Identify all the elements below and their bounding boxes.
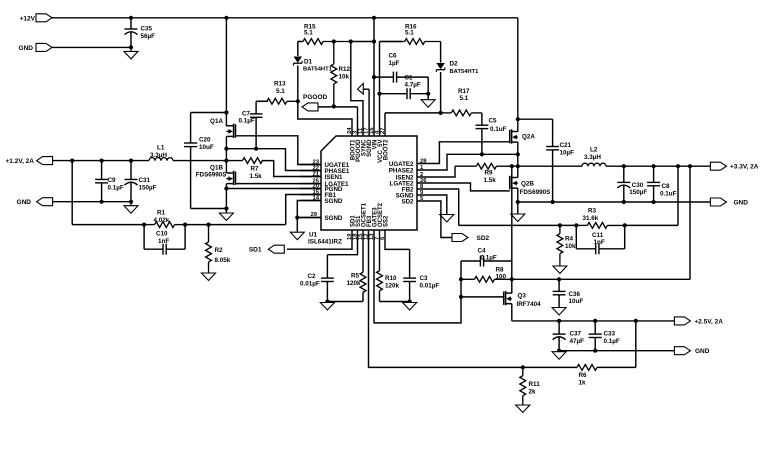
ground under R4: [559, 262, 561, 266]
wire +3.3V to Q3: [511, 166, 513, 261]
svg-text:C8: C8: [662, 183, 671, 190]
svg-text:+1.2V, 2A: +1.2V, 2A: [6, 158, 35, 165]
wire SGND pin14: [297, 201, 321, 232]
wire Q2A source to Q2B drain: [517, 142, 519, 177]
capacitor C6 1uF: [374, 76, 393, 78]
svg-text:10µF: 10µF: [560, 150, 575, 157]
svg-text:29: 29: [310, 212, 317, 218]
svg-text:8.05k: 8.05k: [215, 257, 231, 264]
resistor R11 2k: [522, 367, 524, 375]
wire C20 bottom to ground row: [191, 208, 227, 210]
resistor R1 4.02k: [72, 224, 144, 226]
svg-text:ISL6441IRZ: ISL6441IRZ: [308, 239, 342, 246]
svg-text:SD1: SD1: [249, 247, 262, 254]
transistor Q2B: [512, 177, 518, 179]
resistor R6 1k: [576, 366, 578, 368]
wire PGND row: [226, 188, 321, 190]
resistor R5 120k: [362, 241, 364, 272]
ground R10 C3: [409, 302, 411, 303]
svg-text:Q1B: Q1B: [210, 165, 223, 172]
resistor R16 5.1: [380, 41, 403, 43]
capacitor C9 0.1uF: [101, 161, 103, 180]
svg-text:2k: 2k: [529, 389, 537, 396]
svg-text:100: 100: [496, 274, 507, 281]
svg-text:C6: C6: [389, 53, 398, 60]
svg-text:R9: R9: [485, 170, 494, 177]
wire BOOT2 row: [384, 113, 386, 136]
svg-text:PHASE2: PHASE2: [389, 167, 414, 174]
svg-text:R6: R6: [579, 372, 588, 379]
wire Q3 drain to +2.5V row: [511, 304, 513, 321]
wire Q2B source to ground: [517, 188, 519, 214]
inductor L2 3.3uH: [518, 165, 582, 167]
wire PHASE2 net: [437, 154, 518, 170]
U1 left pin stubs: [300, 164, 321, 166]
svg-text:120k: 120k: [346, 280, 361, 287]
svg-text:L1: L1: [157, 145, 165, 152]
ground under Q1B: [225, 209, 227, 213]
svg-text:R2: R2: [215, 247, 224, 254]
transistor Q3 IRF7404: [506, 292, 512, 294]
svg-text:C31: C31: [139, 177, 151, 184]
svg-text:21: 21: [312, 171, 319, 177]
ground pin9: [446, 214, 448, 215]
svg-text:C2: C2: [308, 273, 317, 280]
svg-text:SS2: SS2: [384, 215, 390, 227]
svg-text:+2.5V, 2A: +2.5V, 2A: [694, 318, 723, 325]
svg-text:PGOOD: PGOOD: [303, 94, 328, 101]
wire BOOT1 net row: [298, 101, 352, 136]
ground under R2: [208, 269, 210, 273]
capacitor C37 47uF: [558, 321, 560, 334]
resistor R13 5.1: [256, 100, 268, 102]
svg-text:SD2: SD2: [477, 235, 490, 242]
transistor Q1B: [226, 172, 233, 174]
svg-text:SGND: SGND: [325, 215, 343, 222]
resistor R2 8.05k: [208, 225, 210, 242]
svg-text:GND: GND: [734, 200, 749, 207]
svg-text:+3.3V, 2A: +3.3V, 2A: [730, 164, 759, 171]
wire GND top: [52, 46, 131, 48]
terminal SD2: [452, 234, 468, 242]
svg-text:U1: U1: [309, 232, 318, 239]
svg-text:5.1: 5.1: [304, 30, 313, 37]
ground under C35: [130, 47, 132, 51]
U1 right pin stubs: [417, 163, 437, 165]
svg-text:1nF: 1nF: [158, 238, 169, 245]
ground under C31: [130, 202, 132, 206]
wire FB3 net row: [369, 241, 578, 367]
wire LGATE1 to Q1B gate: [236, 183, 322, 185]
svg-text:BOOT2: BOOT2: [384, 139, 390, 160]
capacitor C5 0.1uF: [481, 113, 483, 125]
wire VCC_5V column: [379, 42, 381, 137]
svg-text:Q3: Q3: [518, 293, 527, 300]
svg-text:D2: D2: [450, 61, 459, 68]
wire GND row 2.5V: [559, 350, 674, 352]
wire SD2 net: [437, 201, 452, 238]
wire GATE3 net: [374, 241, 461, 323]
svg-text:L2: L2: [590, 147, 598, 154]
resistor R4 10k: [559, 225, 561, 233]
svg-text:C9: C9: [108, 177, 117, 184]
resistor R17 5.1: [441, 112, 452, 114]
svg-text:R5: R5: [351, 273, 360, 280]
svg-text:C35: C35: [141, 26, 153, 33]
ground U1 SGND: [296, 231, 298, 232]
svg-text:31.6k: 31.6k: [583, 215, 599, 222]
wire Q3 gate: [461, 296, 504, 298]
wire FB1 net: [286, 195, 321, 225]
ground under R11: [522, 404, 524, 405]
wire R8 node to +3.3V riser: [512, 278, 690, 280]
wire SYNC branch: [351, 42, 363, 137]
terminal +1.2V 2A: [37, 157, 53, 165]
wire FB2 row: [459, 224, 577, 226]
capacitor C21 10uF: [552, 119, 554, 146]
capacitor C20 10uF: [190, 113, 192, 144]
svg-text:0.1µF: 0.1µF: [108, 185, 124, 192]
svg-text:C20: C20: [199, 137, 211, 144]
resistor R8 100: [461, 278, 475, 280]
svg-text:10uF: 10uF: [569, 298, 584, 305]
wire GND row right: [518, 201, 711, 203]
ground under Q2B: [517, 210, 519, 214]
wire SS1 net: [327, 241, 357, 255]
diode D2 BAT54HT1: [440, 42, 442, 63]
svg-text:Q2A: Q2A: [522, 134, 535, 141]
svg-text:1nF: 1nF: [594, 239, 605, 246]
svg-text:0.1µF: 0.1µF: [481, 255, 497, 262]
terminal GND right: [710, 198, 726, 206]
svg-text:R13: R13: [274, 81, 286, 88]
capacitor C35 56uF: [130, 18, 132, 29]
wire C6 C1 to ground: [427, 77, 429, 99]
wire R3 to +3.3V: [677, 166, 679, 225]
svg-text:0.01µF: 0.01µF: [300, 281, 320, 288]
wire +2.5V row: [512, 320, 674, 322]
svg-text:C3: C3: [420, 275, 429, 282]
wire LGATE2 to Q2B gate: [437, 183, 510, 191]
svg-text:GND: GND: [19, 45, 34, 52]
svg-text:3.3µH: 3.3µH: [584, 154, 601, 161]
svg-text:Q1A: Q1A: [210, 118, 223, 125]
diode D1 BAT54HT1: [297, 42, 299, 57]
wire SGND pin9 to ground: [437, 195, 447, 214]
svg-text:C7: C7: [242, 111, 251, 118]
terminal GND bottom right: [674, 347, 690, 355]
svg-text:C21: C21: [560, 142, 572, 149]
svg-text:C4: C4: [478, 248, 487, 255]
resistor R7 1.5k ISEN: [226, 160, 242, 162]
svg-text:C10: C10: [156, 231, 168, 238]
svg-text:1.5k: 1.5k: [250, 173, 263, 180]
svg-text:C30: C30: [632, 182, 644, 189]
wire UGATE1 to Q1A gate: [236, 136, 322, 165]
svg-text:FDS6990S: FDS6990S: [520, 189, 551, 196]
svg-text:4.02k: 4.02k: [154, 217, 170, 224]
wire Q1A drain column from +12V rail: [225, 18, 227, 126]
svg-text:47µF: 47µF: [570, 338, 585, 345]
svg-text:C1: C1: [405, 74, 414, 81]
svg-text:C5: C5: [489, 118, 498, 125]
capacitor C36 10uF: [558, 279, 560, 291]
svg-text:R4: R4: [565, 236, 574, 243]
svg-text:0.01µF: 0.01µF: [420, 283, 440, 290]
node SYNC arrow: [358, 83, 364, 94]
svg-text:10k: 10k: [565, 243, 576, 250]
svg-text:5.1: 5.1: [276, 88, 285, 95]
ground C6 C1: [427, 94, 429, 100]
svg-text:C36: C36: [569, 291, 581, 298]
transistor Q1A: [226, 125, 233, 127]
capacitor C10 1nF: [143, 225, 145, 250]
svg-text:SD2: SD2: [401, 198, 414, 205]
svg-text:120k: 120k: [385, 283, 400, 290]
svg-text:R1: R1: [157, 210, 166, 217]
svg-text:56µF: 56µF: [141, 33, 156, 40]
wire SGND pin29: [297, 217, 321, 219]
capacitor C2 0.01uF: [326, 255, 328, 278]
capacitor C8 0.1uF: [653, 166, 655, 182]
wire SGND pin17: [368, 89, 370, 136]
svg-text:GND: GND: [17, 199, 32, 206]
svg-text:1k: 1k: [579, 380, 587, 387]
svg-text:GND: GND: [695, 348, 710, 355]
svg-text:1µF: 1µF: [389, 60, 400, 67]
wire C21 branch: [518, 118, 553, 120]
terminal GND top: [36, 43, 52, 51]
terminal +3.3V 2A: [710, 162, 726, 170]
svg-text:R10: R10: [385, 275, 397, 282]
svg-text:BAT54HT1: BAT54HT1: [450, 69, 480, 75]
wire R6 to +2.5V: [635, 321, 637, 368]
wire Q1B source to ground: [225, 184, 227, 213]
svg-text:IRF7404: IRF7404: [517, 301, 542, 308]
capacitor C7 0.1uF: [255, 101, 257, 114]
wire SD1 net: [287, 241, 352, 249]
svg-text:10uF: 10uF: [199, 144, 214, 151]
svg-text:R3: R3: [588, 208, 597, 215]
svg-text:SGND: SGND: [325, 198, 343, 205]
svg-text:Q2B: Q2B: [521, 181, 534, 188]
wire +12V rail: [52, 17, 518, 19]
terminal SD1: [268, 245, 284, 253]
wire R10 C3 ground row: [380, 301, 410, 303]
wire Q1A source to Q1B drain: [225, 136, 227, 173]
wire +1.2V sense drop: [71, 161, 73, 225]
ground under C36: [558, 307, 560, 308]
svg-text:BAT54HT1: BAT54HT1: [303, 67, 333, 73]
svg-text:D1: D1: [304, 59, 313, 66]
wire SS2 net: [385, 241, 410, 249]
capacitor C4 0.1uF: [461, 260, 480, 262]
svg-text:150µF: 150µF: [629, 189, 647, 196]
wire C20 branch: [191, 112, 227, 114]
svg-text:C33: C33: [604, 331, 616, 338]
ground C2 R5: [326, 302, 328, 303]
wire GND left row: [53, 201, 131, 203]
wire C2 R5 ground row: [327, 301, 363, 303]
terminal +2.5V 2A: [674, 317, 690, 325]
svg-text:10k: 10k: [339, 74, 350, 81]
resistor R10 120k: [379, 241, 381, 271]
terminal +12V: [36, 14, 52, 22]
svg-text:150µF: 150µF: [139, 185, 157, 192]
capacitor C30 150uF: [623, 166, 625, 182]
wire +1.2V output row: [53, 160, 149, 162]
wire FB2 net: [437, 189, 459, 225]
wire PGOOD to pin3: [318, 106, 358, 108]
terminal PGOOD: [302, 103, 318, 111]
U1 bottom pin stubs: [351, 230, 353, 241]
IC U1 ISL6441IRZ: [321, 136, 417, 230]
resistor R3 31.6k: [576, 224, 587, 226]
svg-text:+12V: +12V: [20, 15, 36, 22]
svg-text:5.1: 5.1: [405, 30, 414, 37]
capacitor C1 4.7uF: [380, 93, 408, 95]
capacitor C3 0.01uF: [409, 249, 411, 278]
svg-text:C37: C37: [570, 331, 582, 338]
capacitor C33 0.1uF: [594, 321, 596, 334]
wire +12V down right: [517, 18, 519, 132]
terminal GND left: [37, 198, 53, 206]
svg-text:1.5k: 1.5k: [484, 177, 497, 184]
svg-text:R11: R11: [529, 381, 541, 388]
resistor R12 10k: [333, 42, 335, 64]
ground under C37: [558, 351, 560, 352]
svg-text:0.1µF: 0.1µF: [239, 118, 255, 125]
svg-text:FDS6990S: FDS6990S: [196, 172, 227, 179]
resistor R9 1.5k: [437, 166, 455, 177]
svg-text:0.1µF: 0.1µF: [604, 338, 620, 345]
capacitor C11 1nF: [575, 225, 577, 248]
svg-text:R7: R7: [251, 166, 260, 173]
svg-text:28: 28: [420, 158, 427, 164]
svg-text:5.1: 5.1: [460, 95, 469, 102]
transistor Q2A: [512, 131, 518, 133]
svg-text:14: 14: [312, 195, 319, 201]
svg-text:R8: R8: [496, 267, 505, 274]
wire VIN column: [373, 18, 375, 136]
svg-text:0.1uF: 0.1uF: [660, 191, 677, 198]
wire C4 right to Q3 column: [511, 261, 513, 293]
resistor R15 5.1: [298, 41, 301, 43]
capacitor C31 150uF: [130, 161, 132, 180]
wire PHASE1 net: [226, 149, 321, 171]
wire UGATE2 to Q2A gate: [437, 142, 510, 164]
svg-text:3.3µH: 3.3µH: [150, 152, 167, 159]
inductor L1 3.3uH: [149, 158, 155, 161]
svg-text:4.7µF: 4.7µF: [405, 81, 421, 88]
svg-text:ISEN1: ISEN1: [325, 174, 343, 181]
svg-text:0.1uF: 0.1uF: [490, 126, 507, 133]
svg-text:R12: R12: [339, 66, 351, 73]
